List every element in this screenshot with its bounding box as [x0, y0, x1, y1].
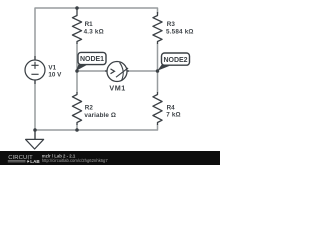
resistor R3 [153, 12, 162, 44]
svg-text:R4: R4 [167, 105, 176, 112]
wire left column below V1 [34, 84, 36, 130]
resistor R4 [153, 92, 162, 125]
wire bottom rail [35, 125, 158, 131]
svg-text:R3: R3 [167, 21, 176, 28]
svg-text:NODE2: NODE2 [163, 57, 187, 64]
resistor R2 (variable) [72, 92, 81, 125]
voltage source V1 [25, 56, 45, 84]
svg-text:7 kΩ: 7 kΩ [166, 112, 181, 119]
junction dot ground [33, 128, 37, 132]
svg-text:5.584 kΩ: 5.584 kΩ [166, 29, 194, 36]
wire middle column R1 to node [76, 44, 78, 93]
svg-text:R2: R2 [85, 104, 94, 111]
voltmeter VM1 [105, 62, 129, 82]
svg-text:VM1: VM1 [109, 84, 125, 93]
junction dot node2 [156, 69, 160, 73]
svg-text:V1: V1 [48, 64, 56, 71]
node NODE1 label box [78, 52, 106, 64]
ground [26, 130, 44, 149]
wire right column R3 to node [157, 44, 159, 93]
wire top rail [35, 8, 158, 56]
footer logo LAB [8, 160, 26, 162]
svg-text:NODE1: NODE1 [80, 56, 104, 63]
svg-text:R1: R1 [85, 21, 94, 28]
wire voltmeter right [127, 70, 158, 72]
svg-text:variable Ω: variable Ω [84, 112, 116, 119]
node NODE2 flag pointer [157, 64, 170, 70]
junction dot node1 [75, 69, 79, 73]
node NODE1 flag pointer [76, 64, 87, 71]
wire voltmeter left [77, 70, 107, 72]
wire middle column R2 bottom [76, 125, 78, 131]
svg-text:4.3 kΩ: 4.3 kΩ [84, 28, 104, 35]
footer bar [0, 151, 220, 165]
junction dot top R1 [75, 6, 79, 10]
resistor R1 [72, 10, 81, 45]
svg-text:http://circuitlab.com/c/2hg62n: http://circuitlab.com/c/2hg62nhk6g7 [42, 158, 109, 163]
svg-text:10 V: 10 V [48, 71, 62, 78]
svg-text:LAB: LAB [30, 159, 40, 164]
junction dot R2 bottom [75, 128, 79, 132]
node NODE2 label box [162, 53, 190, 65]
